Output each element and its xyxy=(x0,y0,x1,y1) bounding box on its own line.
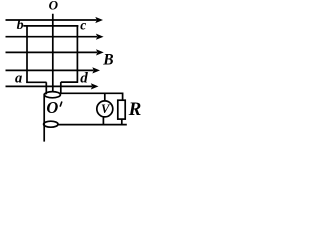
svg-text:O: O xyxy=(46,98,58,117)
svg-text:B: B xyxy=(102,52,113,69)
svg-text:R: R xyxy=(128,99,142,120)
svg-text:V: V xyxy=(101,102,111,116)
svg-text:b: b xyxy=(17,18,24,33)
svg-text:O: O xyxy=(49,0,59,13)
svg-text:a: a xyxy=(15,70,22,86)
svg-text:d: d xyxy=(80,71,88,87)
svg-text:c: c xyxy=(80,18,86,33)
